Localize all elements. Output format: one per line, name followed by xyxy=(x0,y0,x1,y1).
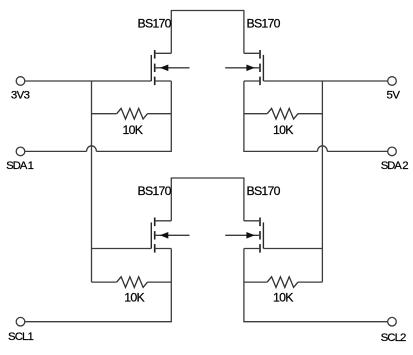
svg-text:3V3: 3V3 xyxy=(11,90,30,102)
node label SDA 1 xyxy=(6,160,34,172)
svg-text:10K: 10K xyxy=(123,123,144,137)
wire hop: SDA1 over 3V3 rail xyxy=(87,146,97,152)
svg-text:5V: 5V xyxy=(387,90,401,102)
wire: Q1 source down to SDA1 xyxy=(170,81,172,151)
label Q4 value BS170 xyxy=(247,184,281,198)
terminal 5V xyxy=(388,77,397,86)
wire: 3V3 rail down (to R1, Q3 gate, R3) xyxy=(91,81,93,282)
node label SCL2 xyxy=(381,332,406,344)
terminal SCL2 xyxy=(388,317,397,326)
node label 3V3 xyxy=(11,90,30,102)
transistor Q1 (BS170, top-left) xyxy=(151,50,189,85)
transistor Q2 (BS170, top-right) xyxy=(225,50,263,85)
resistor R4 10K (5V pull-up, SCL2) xyxy=(244,277,323,288)
label Q3 value BS170 xyxy=(138,184,172,198)
wire: 3V3 to Q1 gate xyxy=(25,80,152,82)
wire: Q4 source down to SCL2 xyxy=(243,249,245,322)
wire: SDA2 line (hops 5V rail) xyxy=(243,150,387,152)
wire: Q2 gate to 5V xyxy=(263,80,387,82)
label R4 value 10K xyxy=(273,291,294,305)
resistor R3 10K (3V3 pull-up, SCL1) xyxy=(92,277,172,288)
resistor R1 10K (3V3 pull-up, SDA1) xyxy=(92,108,172,119)
svg-text:10K: 10K xyxy=(273,123,294,137)
node label 5V xyxy=(387,90,401,102)
node label SCL1 xyxy=(8,331,33,343)
label R3 value 10K xyxy=(124,291,145,305)
wire: Q3 source down to SCL1 xyxy=(170,249,172,322)
label Q1 value BS170 xyxy=(138,17,172,31)
wire: SCL2 line xyxy=(243,321,387,323)
terminal SDA2 xyxy=(388,147,397,156)
terminal 3V3 xyxy=(16,77,25,86)
terminal SCL1 xyxy=(16,317,25,326)
label R2 value 10K xyxy=(273,123,294,137)
wire: 3V3 rail to Q3 gate xyxy=(92,248,152,250)
node label SDA 2 xyxy=(381,160,409,172)
transistor Q4 (BS170, bottom-right) xyxy=(225,218,263,253)
svg-text:SDA 2: SDA 2 xyxy=(381,160,409,172)
svg-text:10K: 10K xyxy=(273,291,294,305)
wire: SCL1 line xyxy=(25,321,172,323)
svg-text:SCL2: SCL2 xyxy=(381,332,406,344)
svg-text:BS170: BS170 xyxy=(247,17,281,31)
svg-text:BS170: BS170 xyxy=(247,184,281,198)
resistor R2 10K (5V pull-up, SDA2) xyxy=(244,108,323,119)
svg-text:SDA 1: SDA 1 xyxy=(6,160,34,172)
wire hop: SDA2 over 5V rail xyxy=(318,146,328,152)
svg-text:10K: 10K xyxy=(124,291,145,305)
svg-text:BS170: BS170 xyxy=(138,184,172,198)
svg-text:BS170: BS170 xyxy=(138,17,172,31)
label Q2 value BS170 xyxy=(247,17,281,31)
wire: Q4 gate to 5V rail xyxy=(263,248,322,250)
wire: drain bridge Q3-Q4 xyxy=(171,178,245,221)
wire: drain bridge Q1-Q2 xyxy=(171,11,245,54)
svg-text:SCL1: SCL1 xyxy=(8,331,33,343)
wire: 5V rail down (to R2, Q4 gate, R4) xyxy=(321,81,323,282)
terminal SDA1 xyxy=(16,147,25,156)
label R1 value 10K xyxy=(123,123,144,137)
transistor Q3 (BS170, bottom-left) xyxy=(151,218,189,253)
wire: SDA1 line (hops 3V3 rail) xyxy=(25,150,172,152)
wire: Q2 source down to SDA2 xyxy=(243,81,245,151)
